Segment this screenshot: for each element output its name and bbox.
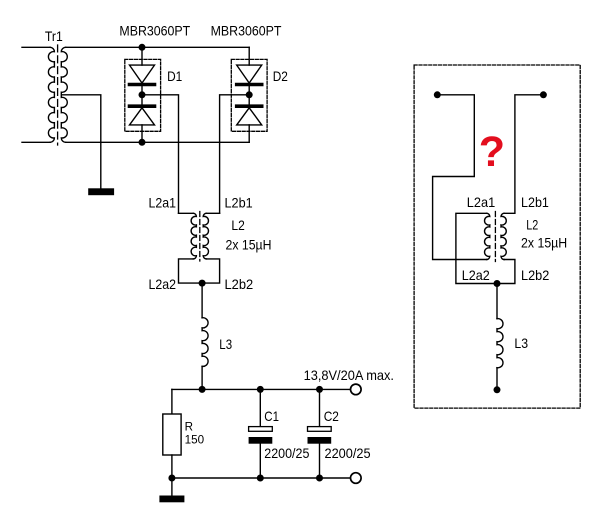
D2 top diode triangle	[237, 65, 262, 83]
D1 bottom diode triangle	[130, 108, 155, 125]
wire output rail bottom	[172, 477, 351, 479]
svg-text:150: 150	[185, 432, 205, 446]
node C1 top junction	[257, 386, 264, 393]
wire D1 cathode middle	[141, 86, 143, 105]
D2 bottom diode triangle	[237, 108, 262, 125]
resistor R1	[163, 389, 181, 478]
svg-text:L2a2: L2a2	[149, 276, 177, 292]
ground	[159, 496, 184, 503]
diode D1	[125, 47, 161, 142]
D1 top diode cathode bar	[130, 83, 155, 87]
D1 top diode triangle	[130, 65, 155, 83]
wire top rail secondary to D2	[66, 46, 250, 48]
wire C1 bottom	[259, 444, 261, 478]
svg-text:L2b1: L2b1	[521, 194, 549, 210]
D2 bottom diode cathode bar	[237, 104, 262, 108]
capacitor C1	[249, 389, 273, 478]
svg-text:C2: C2	[324, 408, 339, 424]
L2a winding	[191, 213, 196, 259]
wire to ground 2	[171, 478, 173, 496]
wire D2 anode top	[248, 47, 250, 65]
L2 core	[199, 212, 201, 262]
D2 top diode cathode bar	[237, 83, 262, 87]
wire output rail top	[172, 388, 351, 390]
wire C1 top	[259, 389, 261, 426]
wire L2b2 bottom	[202, 259, 220, 283]
wire C2 bottom	[319, 444, 321, 478]
wire terminal B to L2b1 alt	[504, 95, 543, 214]
L2 core alt	[494, 212, 496, 262]
svg-text:C1: C1	[264, 408, 279, 424]
svg-text:L2a2: L2a2	[462, 267, 490, 283]
node terminal C	[494, 386, 501, 393]
wire L3 to output rail	[201, 366, 203, 389]
svg-text:L2: L2	[526, 217, 538, 233]
node C1 bottom junction	[257, 475, 264, 482]
transformer Tr1	[22, 45, 67, 145]
svg-text:L2a1: L2a1	[467, 194, 496, 210]
svg-text:2x 15µH: 2x 15µH	[226, 236, 272, 252]
node C2 top junction	[316, 386, 323, 393]
inductor L2	[179, 212, 220, 284]
inductor L3 alt	[497, 319, 503, 368]
terminal output plus	[351, 384, 362, 395]
C1 top plate	[249, 427, 273, 432]
inductor L2 alt	[485, 212, 507, 262]
svg-text:Tr1: Tr1	[45, 28, 63, 44]
wire L2a2 bottom	[179, 259, 203, 283]
node terminal B	[540, 91, 547, 98]
svg-text:L2: L2	[231, 217, 245, 233]
D2 package dashed box	[231, 59, 267, 131]
node terminal A	[434, 91, 441, 98]
D1 package dashed box	[125, 59, 161, 131]
C1 bottom plate	[249, 437, 273, 444]
wire terminal A to L2a2 alt	[433, 95, 487, 260]
wire center tap	[62, 95, 101, 189]
svg-text:MBR3060PT: MBR3060PT	[211, 22, 282, 38]
alternative wiring dashed box	[414, 65, 580, 408]
node L2 alt output junction	[494, 280, 501, 287]
node L2 output junction	[199, 280, 206, 287]
wire R top	[171, 389, 173, 414]
wire D2 cathode to L2b1	[220, 95, 250, 214]
svg-text:D1: D1	[167, 68, 182, 84]
svg-text:2200/25: 2200/25	[325, 445, 371, 461]
wire D1 anode bottom	[141, 125, 143, 142]
wire D1 cathode to L2a1	[142, 95, 179, 214]
node D2 cathode junction	[246, 91, 253, 98]
wire D2 anode bottom	[248, 125, 250, 142]
svg-text:L3: L3	[514, 335, 528, 351]
R body	[163, 414, 181, 455]
wire L2b2 alt to output node	[497, 260, 515, 284]
C2 bottom plate	[308, 437, 332, 444]
svg-text:L3: L3	[219, 336, 232, 352]
wire primary bottom lead	[22, 141, 50, 143]
C2 top plate	[308, 427, 332, 432]
svg-text:L2b2: L2b2	[225, 276, 254, 292]
node D1 top junction	[139, 44, 146, 51]
svg-text:D2: D2	[273, 68, 288, 84]
wire L2a1 alt to output node	[456, 213, 497, 283]
svg-text:L2a1: L2a1	[149, 195, 177, 211]
wire L2 to L3	[201, 283, 203, 318]
Tr1 primary winding	[48, 47, 54, 142]
L2a winding alt	[485, 213, 490, 259]
svg-text:MBR3060PT: MBR3060PT	[119, 22, 190, 38]
D1 bottom diode cathode bar	[130, 104, 155, 108]
node D1 cathode junction	[139, 91, 146, 98]
inductor L3	[202, 318, 208, 367]
diode D2	[231, 47, 267, 142]
svg-text:13,8V/20A max.: 13,8V/20A max.	[304, 367, 394, 383]
node C2 bottom junction	[316, 475, 323, 482]
wire D1 anode top	[141, 47, 143, 65]
svg-text:L2b2: L2b2	[521, 267, 549, 283]
terminal output minus	[351, 473, 362, 484]
node D1 bottom junction	[139, 139, 146, 146]
svg-text:?: ?	[479, 128, 505, 176]
wire L3 alt bottom	[496, 368, 498, 390]
wire L2a top	[179, 212, 194, 214]
wire L2b top	[206, 212, 219, 214]
wire D2 cathode middle	[248, 86, 250, 105]
Tr1 core	[57, 45, 59, 145]
svg-text:2x 15µH: 2x 15µH	[521, 235, 567, 251]
wire L2 alt to L3 alt	[496, 284, 498, 319]
wire bottom rail secondary to D2	[66, 141, 250, 143]
Tr1 secondary winding	[61, 47, 67, 142]
wire primary top lead	[22, 46, 50, 48]
svg-text:2200/25: 2200/25	[264, 445, 309, 461]
node R bottom junction	[168, 475, 175, 482]
L2b winding alt	[501, 213, 506, 259]
wire R bottom	[171, 455, 173, 478]
node L3 output junction	[199, 386, 206, 393]
capacitor C2	[308, 389, 332, 478]
L2b winding	[203, 213, 208, 259]
svg-text:L2b1: L2b1	[225, 195, 253, 211]
ground	[88, 188, 114, 195]
wire C2 top	[319, 389, 321, 426]
